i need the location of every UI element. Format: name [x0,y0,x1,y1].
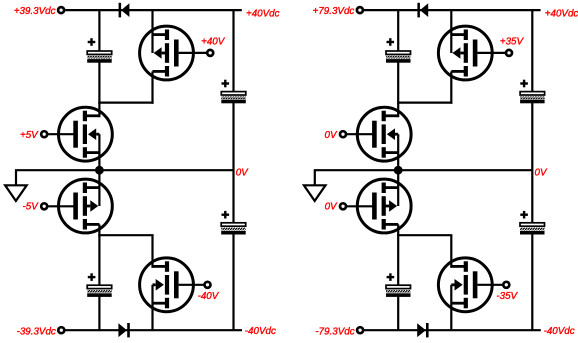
terminal -supply input [357,327,363,333]
transistor Q4 lower pass [140,258,194,312]
polarity + [520,214,528,216]
wire Q3 source from node [397,170,399,206]
wire right rail lower [232,233,234,330]
wire cap to link [397,62,399,104]
capacitor C7 [386,285,411,288]
capacitor C4 [221,223,246,226]
wire right rail upper [232,10,234,93]
capacitor C2 [221,92,246,95]
capacitor C6 [520,92,545,95]
capacitor C3 [87,285,112,288]
wire gate lead Q1 [477,52,506,54]
terminal gate bias upper [207,50,213,56]
wire right rail lower [531,233,533,330]
svg-text:+39.3Vdc: +39.3Vdc [14,6,56,17]
wire positive supply rail [65,9,242,11]
wire gate lead Q2 [47,133,74,135]
svg-text:+5V: +5V [20,130,39,141]
transistor Q7 lower follower [357,179,411,233]
terminal gate drive upper [340,131,346,137]
wire Q2 drain [98,103,100,118]
wire link lower [98,234,153,236]
wire right rail middle [232,102,234,224]
wire cap branch lower [397,235,399,286]
wire Q2 drain [397,103,399,118]
transistor Q1 upper pass [140,26,194,80]
wire negative supply rail [65,329,242,331]
wire Q4 drain upper [450,235,452,268]
terminal gate drive upper [41,131,47,137]
wire right rail upper [531,10,533,93]
terminal +supply input [357,7,363,13]
svg-text:+79.3Vdc: +79.3Vdc [313,6,355,17]
terminal -supply input [58,327,64,333]
transistor Q8 lower pass [438,258,492,312]
diode D1 [119,3,122,18]
capacitor C5 [386,51,411,54]
wire Q3 drain down [397,224,399,236]
wire Q1 source down [450,71,452,103]
svg-text:-39.3Vdc: -39.3Vdc [17,327,56,338]
svg-text:-40V: -40V [198,291,220,302]
wire Q4 source down [151,285,153,330]
ground [314,170,316,185]
wire Q2 source to node [397,134,399,170]
wire gate lead Q4 [179,284,205,286]
svg-text:-35V: -35V [496,291,518,302]
wire cap branch top [397,10,399,52]
polarity + [88,41,96,43]
wire cap branch lower [98,235,100,286]
wire positive supply rail [364,9,541,11]
polarity + [222,82,230,84]
left circuit [5,3,246,338]
wire cap to rail [98,296,100,330]
polarity + [222,214,230,216]
svg-text:0V: 0V [325,202,338,213]
wire Q4 source down [450,285,452,330]
transistor Q2 upper follower [59,107,113,161]
svg-text:-5V: -5V [23,202,40,213]
transistor Q5 upper pass [438,26,492,80]
svg-text:-40Vdc: -40Vdc [544,326,575,337]
wire gate lead Q2 [346,133,373,135]
terminal gate bias lower [205,282,211,288]
wire link upper [98,101,153,103]
svg-text:0V: 0V [535,168,548,179]
svg-text:+40Vdc: +40Vdc [246,8,280,19]
polarity + [520,82,528,84]
svg-text:+35V: +35V [500,37,525,48]
wire cap to rail [397,296,399,330]
svg-text:-40Vdc: -40Vdc [245,326,276,337]
capacitor C1 [87,51,112,54]
polarity + [387,276,395,278]
wire right rail middle [531,102,533,224]
wire negative supply rail [364,329,541,331]
wire Q drain upper [450,10,452,53]
terminal gate bias lower [503,282,509,288]
wire gate lead Q3 [47,205,74,207]
wire Q3 drain down [98,224,100,236]
wire 0V mid rail [15,169,234,171]
svg-text:-79.3Vdc: -79.3Vdc [315,327,354,338]
svg-text:0V: 0V [236,168,249,179]
wire Q drain upper [151,10,153,53]
diode D4 [417,323,426,337]
capacitor C8 [520,223,545,226]
wire cap to link [98,62,100,104]
wire Q4 drain upper [151,235,153,268]
wire gate lead Q4 [477,284,503,286]
ground [15,170,17,185]
wire link lower [397,234,452,236]
wire link upper [397,101,452,103]
polarity + [387,41,395,43]
terminal gate drive lower [41,203,47,209]
wire 0V mid rail [314,169,533,171]
terminal +supply input [58,7,64,13]
terminal gate bias upper [506,50,512,56]
diode D3 [417,3,420,18]
node junction 0V [394,166,403,175]
wire Q1 source down [151,71,153,103]
wire Q2 source to node [98,134,100,170]
transistor Q3 lower follower [59,179,113,233]
polarity + [88,276,96,278]
svg-text:0V: 0V [325,130,338,141]
terminal gate drive lower [340,203,346,209]
diode D2 [118,323,127,337]
svg-text:+40Vdc: +40Vdc [545,8,578,19]
svg-text:+40V: +40V [201,37,226,48]
node junction 0V [95,166,104,175]
wire Q3 source from node [98,170,100,206]
wire gate lead Q1 [179,52,208,54]
right circuit [304,3,545,338]
transistor Q6 upper follower [357,107,411,161]
wire cap branch top [98,10,100,52]
wire gate lead Q3 [346,205,373,207]
